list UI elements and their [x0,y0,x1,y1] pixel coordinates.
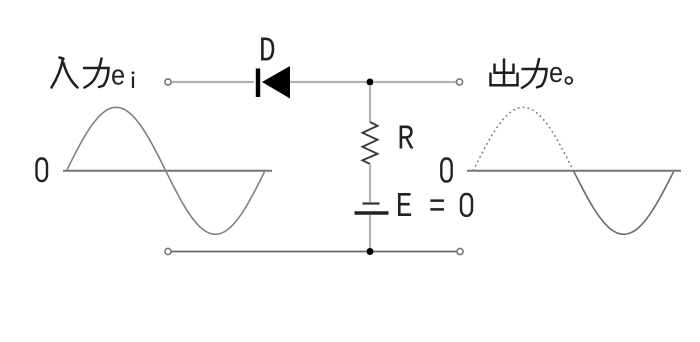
bottom rail left terminal (open circle) [165,248,171,254]
wire: junction to output terminal [373,81,456,83]
output waveform axis [467,170,681,172]
label 出力 (output) kanji 力 [522,59,547,88]
bottom wire right segment [373,251,457,253]
wire: battery to bottom junction [369,215,371,249]
battery label 0 [461,194,472,216]
input waveform axis [63,170,272,172]
diode D cathode bar [256,69,260,98]
svg-text:e: e [549,60,564,91]
junction node B (bottom) [367,248,374,255]
output negative half (solid) [574,171,674,235]
svg-text:R: R [397,120,414,160]
subscript i dot [132,71,135,74]
bottom rail right terminal (open circle) [457,248,463,254]
junction node A (top) [367,79,374,86]
svg-text:e: e [111,63,126,94]
battery E short plate [363,202,380,204]
battery E long plate [355,211,389,214]
subscript i stem [132,77,134,89]
wire: input terminal to diode [172,81,254,83]
wire: diode to junction node [290,81,368,83]
label 入力 (input) kanji 力 [84,59,109,88]
output terminal (open circle) [456,79,462,85]
subscript o [565,77,572,84]
svg-text:=: = [429,188,446,228]
bottom wire left segment [172,251,368,253]
input axis zero label [37,159,48,182]
svg-text:D: D [259,31,276,71]
input sine wave [67,107,265,234]
label 出力 (output) kanji 出 [491,60,518,86]
resistor R zigzag [363,122,378,164]
output axis zero label [441,159,451,182]
input terminal (open circle) [165,79,171,85]
diode D triangle (anode, pointing left) [262,66,290,99]
wire: resistor to battery [369,164,371,202]
svg-text:E: E [396,187,413,227]
label 入力 (input) kanji 入 [52,58,78,88]
output positive half (dotted, clipped) [473,107,573,171]
wire: junction down to resistor [369,85,371,122]
